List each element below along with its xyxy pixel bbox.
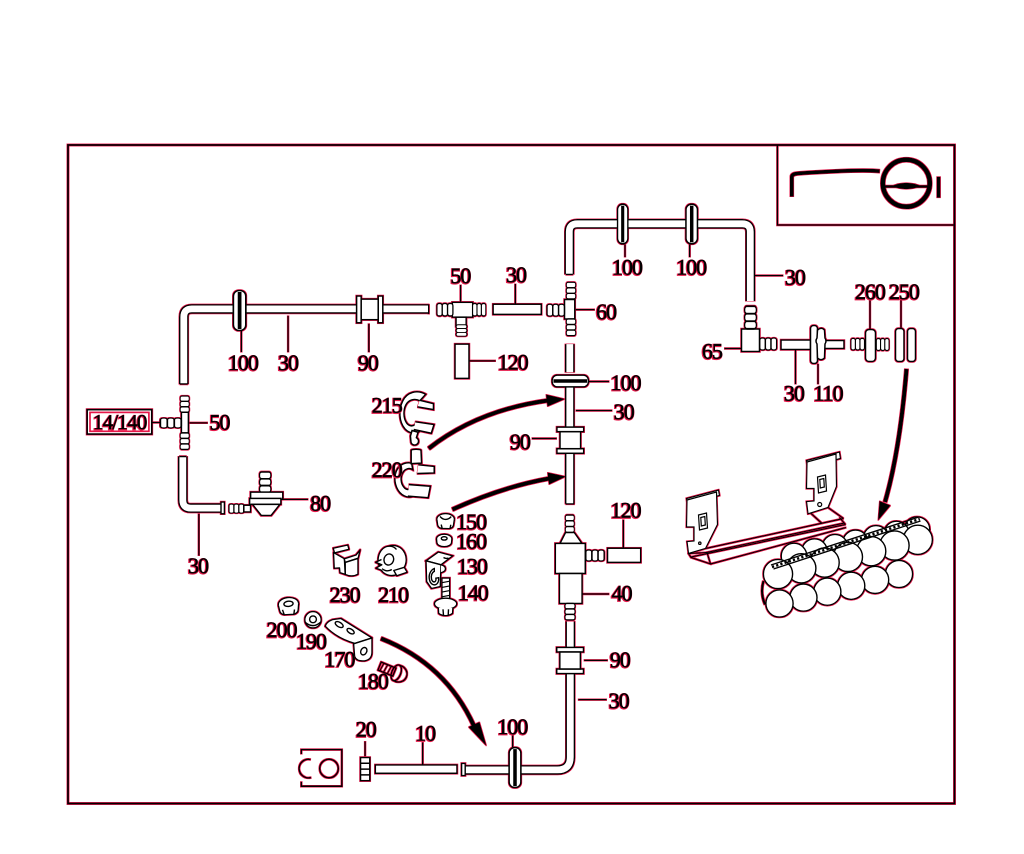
pipe end flare bottom [462, 763, 466, 775]
pipe 30 short piece top centre [493, 304, 541, 314]
washer 160 [437, 534, 452, 546]
clip 230 [333, 545, 360, 576]
pipe stub right of 110 [825, 341, 845, 349]
bracket rail right plate [807, 452, 841, 514]
washer 190 [305, 612, 321, 628]
pipe 30 short piece right [781, 340, 811, 350]
wire pipe 30 lower-left L-shape [183, 457, 223, 509]
connector 20 [361, 758, 370, 781]
ball strip bottom row [766, 560, 913, 617]
clamp 210 [374, 542, 410, 579]
ball strip top row [781, 517, 930, 569]
pipe end ticks [180, 274, 575, 504]
rect 120 left [455, 344, 469, 378]
rect 120 centre [608, 548, 641, 562]
nut 200 [278, 597, 298, 614]
wire pipe 30 top-left L-shape [184, 309, 429, 384]
arrow to ball strip [885, 369, 907, 502]
wire pipe 30 centre segment b [565, 387, 575, 429]
bolt 140 [434, 578, 456, 616]
grommet 250 [896, 329, 905, 362]
ball strip end tick [762, 581, 765, 605]
clip 130 [426, 552, 453, 589]
T-connector 60 [565, 300, 575, 320]
clamp 90 centre [557, 427, 584, 453]
bracket rail channel [689, 508, 847, 565]
arrow to upper pipe [429, 401, 548, 449]
T-connector 50 left [181, 412, 188, 433]
grommet 100 top-left [233, 291, 245, 331]
bracket rail left plate [687, 490, 720, 554]
ball strip middle row [763, 525, 932, 588]
wire pipe 30 centre segment c [565, 453, 575, 504]
wire pipe 30 centre segment a [565, 344, 575, 372]
steering wheel icon [792, 171, 880, 197]
steering wheel box [777, 145, 954, 225]
box 14/140 [87, 410, 152, 435]
wire pipe 30 lower L to bottom-left [465, 672, 570, 770]
bolt 180 [376, 658, 409, 684]
wire pipe 30 centre segment d [565, 622, 575, 650]
clamp 90 lower [557, 647, 584, 673]
arrow to lower pipe [452, 479, 549, 510]
ball strip rail line [771, 517, 921, 569]
grommet 100 U-pipe left [618, 204, 628, 244]
bottom-left connector face [299, 750, 342, 787]
arrow to bottom junction [381, 639, 474, 727]
frame border [68, 145, 955, 804]
connector 260 [851, 338, 865, 350]
grommet 100 U-pipe right [686, 204, 698, 244]
leader lines [152, 245, 901, 765]
nut 150 [437, 514, 455, 529]
check valve 40 [565, 515, 574, 532]
bracket 170 [325, 618, 372, 661]
clamp 90 top-left horizontal [357, 296, 383, 323]
wire pipe 30 top U-shape [569, 224, 750, 301]
damper 110 [811, 326, 818, 364]
T-connector 50 top [452, 302, 472, 317]
grommet 100 bottom [509, 748, 521, 788]
grommet 100 centre horizontal [552, 375, 588, 387]
clip 220 [395, 449, 434, 498]
pipe end flare left L [221, 502, 224, 514]
clip 215 [400, 392, 434, 445]
fuel filter 80 [260, 472, 271, 493]
pipe 10 bottom [375, 765, 457, 773]
elbow 65 [742, 329, 760, 352]
